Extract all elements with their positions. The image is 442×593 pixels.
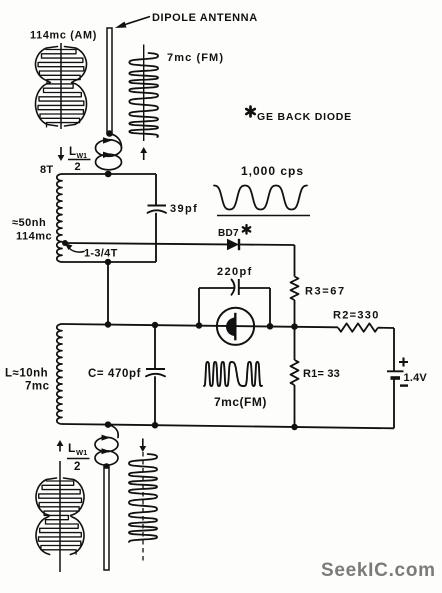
arrow down above bottom FM waveform (139, 439, 146, 453)
svg-text:220pf: 220pf (217, 266, 253, 278)
junction dot bottom/470pf (152, 422, 159, 429)
junction dot main/R divider (291, 323, 298, 330)
junction dot bottom/R1 (291, 424, 298, 431)
label R2=330 (333, 310, 380, 322)
svg-text:L: L (68, 441, 75, 455)
svg-text:GE BACK DIODE: GE BACK DIODE (257, 111, 352, 123)
wire 220pf loop right (239, 288, 270, 326)
svg-text:8T: 8T (40, 164, 53, 176)
wire main to R1 (294, 327, 296, 360)
label 220pf (217, 266, 253, 278)
label 8T (40, 164, 53, 176)
wire 470pf top lead (154, 325, 156, 369)
label 39pf (170, 203, 198, 215)
label LW1/2 (top) (68, 146, 91, 173)
FM waveform (bottom) (129, 452, 157, 561)
svg-text:2: 2 (75, 161, 81, 173)
label L approx 10nh 7mc (5, 368, 50, 393)
watermark SeekIC.com (321, 560, 436, 581)
label 1,000 cps (241, 164, 304, 178)
svg-text:114mc: 114mc (16, 231, 52, 243)
capacitor 220pf (232, 279, 239, 295)
label R1=33 (303, 368, 340, 380)
svg-text:L≈10nh: L≈10nh (5, 368, 48, 380)
wire 220pf loop left (199, 288, 234, 326)
inductor L approx 10nh (tank 2 coil) (57, 324, 62, 424)
svg-text:1,000 cps: 1,000 cps (241, 164, 304, 178)
wire tank1 bottom edge (62, 261, 156, 263)
svg-text:1-3/4T: 1-3/4T (84, 248, 118, 260)
wire tap to diode (65, 243, 227, 244)
label GE BACK DIODE with asterisk (246, 107, 352, 123)
label BD7 with asterisk (218, 225, 250, 239)
resistor R3=67 (291, 277, 299, 301)
capacitor 39pf (148, 206, 167, 213)
label C=470pf (88, 368, 141, 380)
label approx 50nh 114mc (12, 217, 52, 243)
wire tank1 bottom to main line (107, 262, 109, 325)
AM modulated waveform (bottom) (36, 461, 84, 572)
svg-text:7mc: 7mc (25, 381, 50, 393)
arrow up (bottom, left of LW1/2 label) (57, 440, 64, 452)
tunnel diode (GE back diode symbol) (217, 308, 254, 345)
diode BD7 (227, 239, 239, 250)
dipole antenna upper element (106, 28, 113, 137)
wire bottom horizontal line (62, 424, 394, 428)
svg-text:≈50nh: ≈50nh (12, 217, 46, 229)
svg-text:DIPOLE ANTENNA: DIPOLE ANTENNA (152, 12, 258, 24)
svg-text:SeekIC.com: SeekIC.com (321, 560, 436, 581)
svg-text:C= 470pf: C= 470pf (88, 368, 141, 380)
FM waveform 7mc(FM) (output) (204, 362, 262, 386)
junction dot tank1 top (105, 171, 112, 178)
wire R2 to battery corner (378, 328, 394, 372)
junction dot main/220pf left (196, 322, 203, 329)
svg-text:L: L (69, 146, 76, 158)
inductor 8T approx 50nh (tank 1 coil) (57, 174, 62, 262)
svg-text:7mc (FM): 7mc (FM) (167, 52, 224, 64)
svg-text:BD7: BD7 (218, 228, 239, 239)
coupling coil LW1/2 (top) (96, 134, 122, 178)
label DIPOLE ANTENNA with leader arrow (115, 12, 258, 28)
FM waveform (top) (129, 45, 158, 142)
resistor R2=330 (338, 323, 378, 331)
junction dot tank1 bottom (105, 259, 112, 266)
label 1.4V (404, 372, 428, 384)
wire R1 to bottom line (294, 385, 296, 427)
arrow down (top, left of LW1/2 label) (58, 147, 65, 161)
svg-text:W1: W1 (76, 448, 87, 457)
wire tank1 right lower (155, 213, 157, 262)
svg-text:7mc(FM): 7mc(FM) (214, 395, 267, 409)
junction dot bottom/coil (105, 421, 112, 428)
svg-text:39pf: 39pf (170, 203, 198, 215)
wire battery to bottom line (393, 380, 395, 429)
wire tank1 top edge (62, 173, 156, 175)
coupling coil LW1/2 (bottom) (95, 425, 118, 470)
junction dot main/470pf (152, 322, 159, 329)
tap dot on tank1 coil (62, 240, 68, 246)
dipole antenna lower element (104, 468, 109, 570)
svg-text:1.4V: 1.4V (404, 372, 428, 384)
svg-text:R2=330: R2=330 (333, 310, 380, 322)
label 7mc(FM) (214, 395, 267, 409)
svg-text:114mc (AM): 114mc (AM) (30, 30, 97, 42)
arrow up below top FM waveform (140, 147, 147, 160)
battery 1.4V (387, 358, 408, 386)
svg-text:2: 2 (74, 461, 80, 473)
wire diode to corner (239, 244, 295, 247)
wire R3 to main line (294, 300, 296, 327)
resistor R1=33 (291, 360, 299, 385)
label 114mc (AM) (30, 30, 97, 42)
junction dot main/tank1 feed (105, 321, 112, 328)
svg-text:R1= 33: R1= 33 (303, 368, 340, 380)
baseline under sine wave (217, 215, 310, 217)
wire tank1 right upper (155, 174, 157, 206)
label R3=67 (305, 286, 346, 298)
wire 470pf bottom lead (154, 376, 156, 425)
label LW1/2 (bottom) (67, 441, 90, 473)
label 7mc (FM) (167, 52, 224, 64)
sine waveform 1,000 cps (214, 186, 307, 210)
label 1-3/4T with curved arrow (65, 243, 118, 260)
svg-text:R3=67: R3=67 (305, 286, 346, 298)
wire corner down to R3 (294, 245, 296, 277)
wire main horizontal line (62, 324, 338, 327)
capacitor C=470pf (146, 369, 165, 376)
junction dot main/220pf right (267, 323, 274, 330)
AM modulated waveform (top) (36, 43, 87, 129)
